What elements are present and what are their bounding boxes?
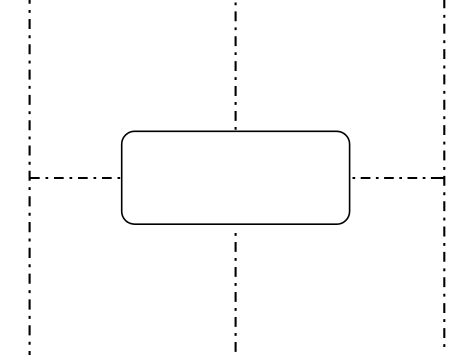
right vertical dash-dot line (lower segment)	[443, 297, 445, 347]
horizontal dash-dot line (right of box)	[350, 177, 445, 179]
left vertical dash-dot line (upper segment)	[29, 0, 31, 190]
right vertical dash-dot line (upper segment)	[443, 0, 445, 297]
left vertical dash-dot line (lower segment)	[29, 190, 31, 355]
center vertical dash-dot line (above box)	[235, 0, 237, 131]
horizontal dash-dot line (left of box)	[30, 177, 122, 179]
center vertical dash-dot line (below box)	[235, 227, 237, 352]
horizontal line junction bridge at right vertical line	[440, 177, 445, 179]
rounded rectangle node	[122, 131, 350, 224]
